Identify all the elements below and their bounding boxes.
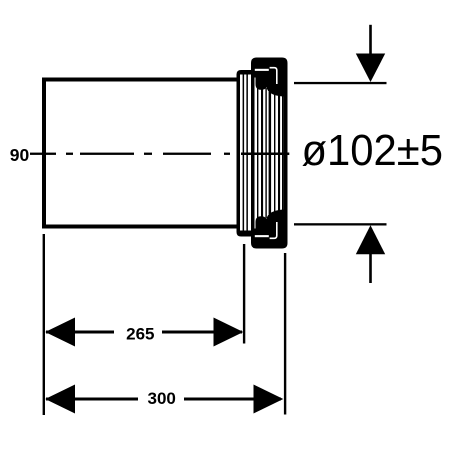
flange top seal lip mass	[253, 66, 284, 97]
centerline dash-dot	[30, 153, 230, 155]
svg-text:300: 300	[148, 389, 176, 408]
flange bottom seal lip mass	[253, 210, 284, 240]
dim line 300	[45, 385, 283, 414]
svg-text:90: 90	[10, 145, 30, 165]
svg-text:ø102±5: ø102±5	[302, 126, 443, 175]
ext line left (shared 265/300)	[43, 234, 45, 415]
dim ext line bottom (o102)	[294, 223, 387, 225]
ext line right 265	[243, 244, 245, 344]
arrow down (o102 top)	[356, 25, 385, 82]
dim ext line top (o102)	[294, 82, 387, 84]
arrow up (o102 bottom)	[356, 225, 385, 283]
white inner corner bracket top	[270, 68, 277, 84]
flange sealing lip ring at pipe end	[237, 70, 254, 237]
lip ring ribs	[243, 75, 248, 231]
flange outer casing	[251, 58, 288, 249]
ext line right 300	[284, 253, 286, 415]
pipe body outline	[44, 80, 239, 227]
svg-text:265: 265	[126, 325, 154, 344]
white separator bottom	[255, 235, 269, 237]
white inner corner bracket bottom	[270, 222, 277, 238]
white separator top	[255, 69, 269, 71]
dim line 265	[45, 318, 243, 347]
centerline solid through flange	[241, 153, 289, 156]
flange inner ribs	[257, 88, 283, 218]
